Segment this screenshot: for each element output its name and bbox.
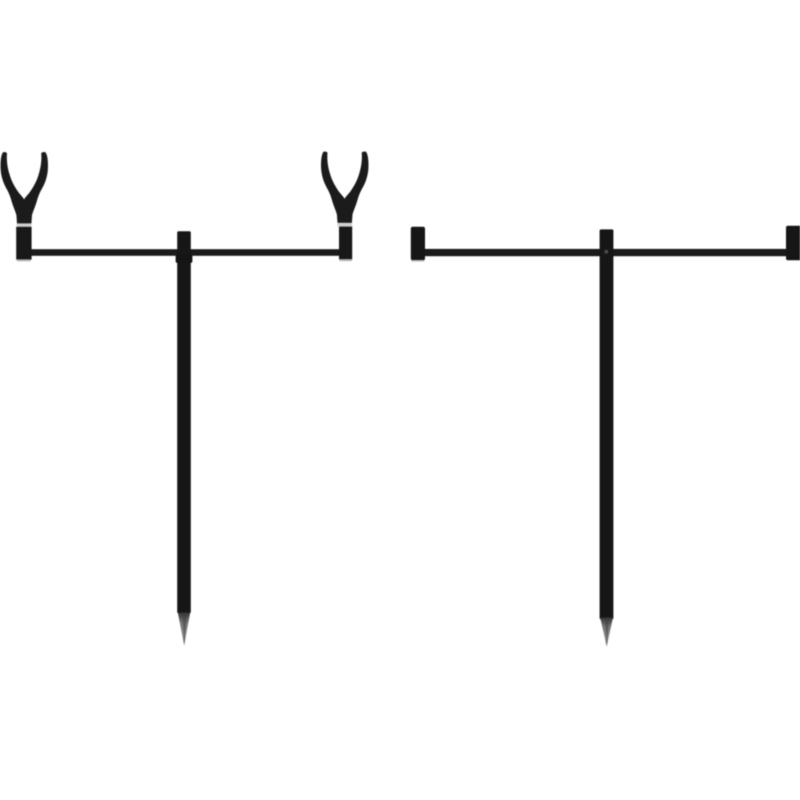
right bar left cap bottom rim [412, 260, 425, 262]
left pole spike dark core [182, 614, 186, 644]
pole clamp knuckle [176, 255, 193, 264]
right bank stick pole [600, 229, 614, 619]
left head sleeve bottom rim [17, 259, 31, 261]
right bar right end cap [786, 226, 800, 260]
left buzz bar crossbar [26, 249, 342, 256]
right pole spike dark core [605, 619, 609, 645]
left head collar ring [17, 223, 32, 226]
right bar left end cap [411, 227, 425, 261]
right rod rest U head [321, 151, 369, 222]
right buzz bar crossbar [412, 249, 800, 256]
right head sleeve bottom rim [339, 259, 351, 261]
left pole spike tip [178, 613, 190, 646]
left bank stick pole [177, 231, 191, 613]
right pole junction mark [605, 250, 609, 254]
right head sleeve cylinder [339, 227, 352, 260]
right head collar ring [337, 223, 352, 226]
left rod rest U head [0, 152, 48, 223]
right pole spike tip [600, 618, 613, 647]
left head sleeve cylinder [16, 227, 31, 260]
